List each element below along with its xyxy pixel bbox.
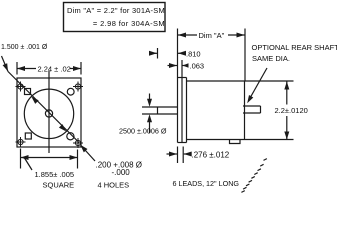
svg-text:6 LEADS, 12" LONG: 6 LEADS, 12" LONG	[173, 179, 240, 188]
leader from 1.500 text	[2, 56, 9, 72]
arrowhead leader	[3, 63, 8, 71]
svg-text:.063: .063	[190, 62, 205, 71]
label .276	[192, 150, 230, 159]
dim 2.24 line right	[70, 68, 81, 70]
svg-text:4 HOLES: 4 HOLES	[98, 181, 130, 190]
svg-text:SQUARE: SQUARE	[43, 180, 75, 189]
label 1.500 dia	[1, 44, 48, 51]
side view front shaft	[142, 106, 178, 108]
dim .063	[168, 65, 178, 67]
dim A line	[178, 34, 197, 36]
plate body	[178, 77, 187, 79]
label 2.2	[275, 106, 308, 115]
plate inner line	[181, 60, 183, 143]
dim 1.855 line	[21, 157, 78, 159]
label 2.24	[38, 64, 71, 73]
dim 1.855 extension lines	[20, 149, 22, 169]
label Dim A	[199, 31, 225, 40]
dim .276 ticks	[177, 147, 179, 164]
svg-text:Dim "A" = 2.2" for 301A-SM: Dim "A" = 2.2" for 301A-SM	[67, 6, 165, 15]
svg-text:= 2.98 for 304A-SM: = 2.98 for 304A-SM	[93, 19, 165, 28]
dim .2500 up arrow	[149, 119, 151, 133]
small square BL	[25, 133, 31, 139]
pilot circle 1.500 dia	[24, 89, 73, 138]
note text line 1	[67, 6, 165, 15]
svg-text:Dim "A": Dim "A"	[199, 31, 225, 40]
diagonal dimension line	[8, 72, 79, 143]
front view flange square	[17, 78, 81, 147]
plate front face line	[177, 29, 179, 143]
svg-text:1.500 ± .001 Ø: 1.500 ± .001 Ø	[1, 44, 48, 51]
motor body	[187, 80, 294, 82]
dim .810 tick	[157, 48, 159, 59]
label 4 HOLES	[98, 181, 130, 190]
label 6 leads	[173, 179, 240, 188]
arrowhead circle edge upper	[31, 97, 38, 104]
leader 1.855	[25, 158, 33, 170]
svg-text:OPTIONAL REAR SHAFT: OPTIONAL REAR SHAFT	[252, 43, 337, 52]
label -.000	[112, 168, 131, 177]
lead exit notch	[230, 140, 241, 144]
dim 2.24 ticks	[16, 62, 18, 75]
label .200	[96, 161, 142, 170]
arrowhead circle edge lower	[59, 124, 66, 131]
note text line 2	[93, 19, 165, 28]
hole TR crosshair	[73, 82, 83, 92]
label .810	[186, 49, 201, 58]
note box	[64, 3, 166, 32]
label .2500 dia	[119, 127, 167, 136]
dim .2500 down arrow	[149, 94, 151, 103]
dim 2.2 vertical	[286, 82, 288, 105]
dim 2.24 line left	[17, 68, 36, 70]
small circle BR	[67, 133, 74, 140]
label .063	[190, 62, 205, 71]
svg-text:.276 ±.012: .276 ±.012	[192, 150, 230, 159]
shaft circle center	[45, 110, 52, 117]
leader .200 holes	[81, 145, 96, 161]
small circle TR	[67, 88, 74, 95]
svg-text:2.2±.0120: 2.2±.0120	[275, 106, 308, 115]
label optional rear shaft	[252, 43, 337, 52]
hole BL crosshair	[16, 137, 26, 147]
dim A right tick	[244, 29, 246, 82]
leader optional rear shaft	[249, 68, 267, 100]
svg-text:.810: .810	[186, 49, 201, 58]
svg-text:1.855± .005: 1.855± .005	[35, 170, 75, 179]
hole BR crosshair	[73, 138, 83, 148]
svg-text:2500 ±.0006 Ø: 2500 ±.0006 Ø	[119, 127, 167, 136]
svg-text:2.24 ± .02: 2.24 ± .02	[38, 64, 71, 73]
hole TL crosshair	[16, 82, 26, 92]
vertical centerline	[48, 71, 50, 153]
label SQUARE	[43, 180, 75, 189]
label 1.855	[35, 170, 75, 179]
small square TL	[25, 89, 31, 95]
svg-text:-.000: -.000	[112, 168, 131, 177]
lead wires dashes	[241, 159, 267, 193]
rear shaft	[243, 105, 261, 107]
svg-text:SAME DIA.: SAME DIA.	[252, 54, 290, 63]
